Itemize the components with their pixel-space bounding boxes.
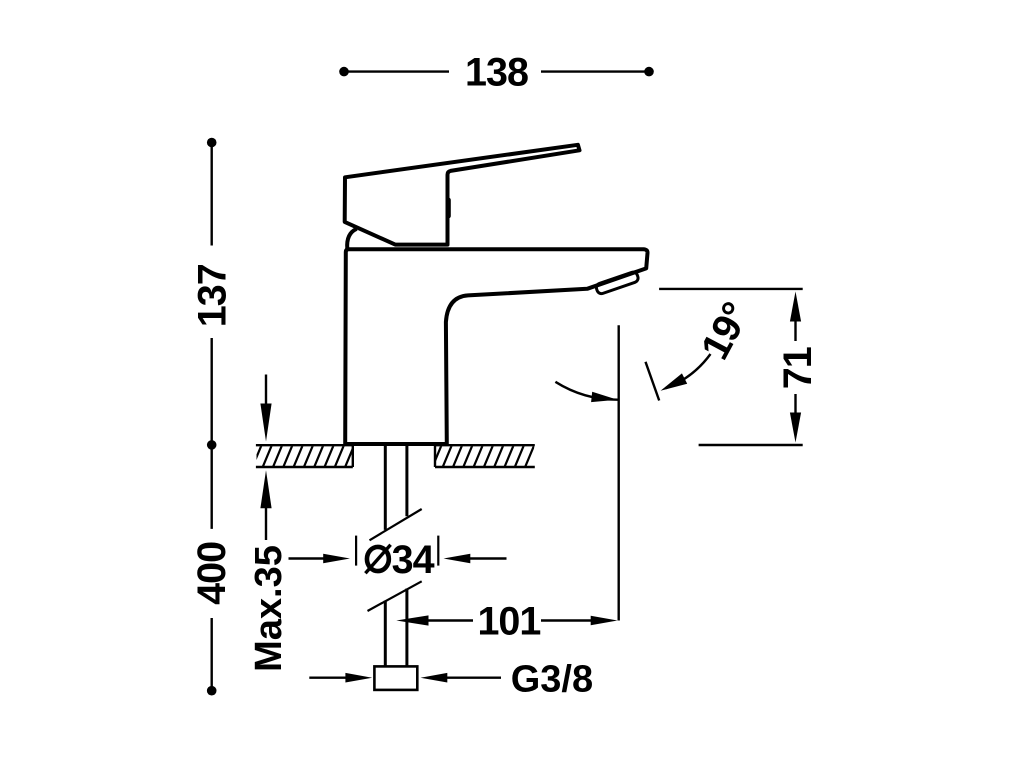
pipe break upper diagonal bbox=[370, 509, 422, 540]
dimension 137 line upper segment bbox=[210, 145, 212, 246]
spout outlet vertical reference line bbox=[618, 325, 620, 620]
19deg label arrow curve bbox=[666, 354, 711, 388]
faucet handle lever bbox=[345, 145, 580, 245]
countertop top line left bbox=[256, 444, 353, 446]
dimension 71 bottom stem bbox=[794, 394, 796, 414]
dia34 right arrowhead bbox=[444, 554, 471, 564]
dimension 101 left line bbox=[427, 619, 474, 621]
svg-text:138: 138 bbox=[465, 51, 528, 95]
19deg direction tick bbox=[646, 362, 660, 401]
19deg arc arrowhead at vertical line bbox=[591, 392, 618, 405]
supply pipe left line lower bbox=[384, 601, 387, 667]
countertop bottom line left bbox=[256, 466, 353, 468]
dimension 137 top dot bbox=[207, 138, 217, 148]
dimension 137 line lower segment bbox=[210, 338, 212, 442]
dia34 left arrowhead bbox=[323, 554, 350, 564]
Max.35 lower arrowhead (up) bbox=[260, 470, 271, 508]
dia34 right extension tick bbox=[437, 536, 439, 566]
Max.35 lower arrow stem bbox=[265, 507, 267, 540]
dimension 71 bottom arrowhead (down) bbox=[790, 413, 801, 443]
counter hole edge right bbox=[434, 445, 436, 467]
dia34 left extension tick bbox=[355, 536, 357, 566]
svg-text:71: 71 bbox=[776, 347, 820, 389]
pipe break lower diagonal bbox=[368, 581, 422, 611]
dimension 101 right arrowhead bbox=[591, 616, 618, 626]
supply pipe left line upper bbox=[384, 445, 387, 530]
aerator (rounded rect, tilted 19deg) bbox=[595, 271, 639, 295]
hatching left band bbox=[252, 444, 365, 468]
hatching right band bbox=[432, 444, 545, 468]
countertop bottom line right bbox=[435, 466, 535, 468]
dimension 400 line lower segment bbox=[210, 618, 212, 687]
G3/8 right arrow line bbox=[447, 677, 502, 679]
Max.35 upper arrow stem bbox=[265, 375, 267, 406]
dimension 138 top: right dot bbox=[644, 67, 654, 77]
handle neck arc bbox=[347, 229, 357, 249]
19deg angle arc bbox=[555, 382, 617, 400]
handle pin bbox=[446, 200, 451, 216]
supply pipe right line upper bbox=[405, 445, 408, 516]
dimension 137 bottom dot bbox=[207, 440, 217, 450]
dimension 71 top arrowhead (up) bbox=[790, 292, 801, 322]
G3/8 connector rect bbox=[374, 666, 417, 690]
dimension 138 line left segment bbox=[346, 70, 449, 72]
faucet body and spout bbox=[345, 249, 647, 444]
Max.35 upper arrowhead (down) bbox=[260, 404, 271, 442]
countertop top line right bbox=[435, 444, 535, 446]
svg-text:34: 34 bbox=[392, 538, 435, 582]
label dia34 bbox=[365, 538, 434, 582]
counter hole edge left bbox=[352, 445, 354, 467]
svg-text:G3/8: G3/8 bbox=[511, 659, 593, 701]
dia34 right arrow line bbox=[470, 557, 507, 559]
dia34 left arrow line bbox=[289, 557, 325, 559]
svg-text:101: 101 bbox=[477, 600, 540, 644]
71 bottom reference line bbox=[699, 444, 803, 446]
G3/8 left arrowhead bbox=[345, 673, 372, 683]
G3/8 left arrow line bbox=[309, 677, 346, 679]
G3/8 right arrowhead bbox=[421, 673, 448, 683]
svg-text:Max.35: Max.35 bbox=[248, 545, 290, 672]
dimension 138 top: left dot bbox=[339, 67, 349, 77]
dimension 101 left arrowhead bbox=[396, 615, 428, 625]
dimension 400 line upper segment bbox=[210, 448, 212, 529]
dimension 400 bottom dot bbox=[207, 686, 217, 696]
71 top reference line bbox=[659, 288, 803, 290]
svg-text:137: 137 bbox=[190, 264, 234, 327]
dimension 101 right line bbox=[541, 619, 593, 621]
supply pipe right line lower bbox=[405, 589, 408, 667]
dimension 71 top stem bbox=[794, 321, 796, 342]
svg-text:400: 400 bbox=[190, 542, 234, 605]
19deg label arrowhead bbox=[658, 373, 687, 396]
dimension 138 line right segment bbox=[541, 70, 647, 72]
